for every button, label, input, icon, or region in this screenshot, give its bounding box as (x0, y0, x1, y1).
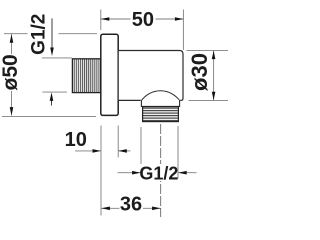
svg-text:ø30: ø30 (187, 53, 212, 91)
svg-text:50: 50 (132, 9, 154, 31)
svg-text:G1/2: G1/2 (29, 14, 50, 55)
svg-text:10: 10 (65, 129, 87, 151)
svg-text:ø50: ø50 (0, 54, 22, 90)
svg-text:G1/2: G1/2 (139, 163, 178, 183)
svg-text:36: 36 (120, 194, 142, 216)
